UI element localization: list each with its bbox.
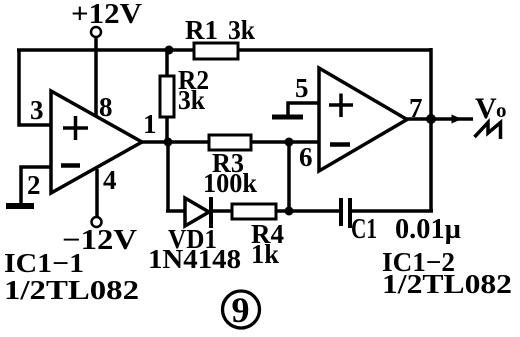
svg-text:3: 3 [30,95,44,125]
junction pin 7 node [426,114,436,124]
junction top rail / R2 [165,46,174,55]
svg-text:o: o [496,98,507,122]
wire diode cathode to R4 [211,209,233,213]
wire R4 to node [275,209,291,213]
resistor R2 [160,76,174,117]
svg-text:1k: 1k [251,239,279,269]
svg-text:1/2TL082: 1/2TL082 [382,269,512,299]
wire R2 bottom stub [165,115,169,142]
svg-text:0.01µ: 0.01µ [395,214,461,245]
diode VD1 [185,197,211,228]
svg-text:R1: R1 [185,15,218,45]
svg-text:9: 9 [232,290,250,330]
ground (pin 2) [6,203,34,209]
svg-text:3k: 3k [178,85,205,115]
wire pin 4 to -12V supply [95,169,99,217]
waveform symbol [475,123,501,140]
junction bottom node [285,207,294,216]
op-amp IC1-2 [319,68,407,171]
wire feedback left: top rail to pin 3 [19,50,51,125]
svg-text:+12V: +12V [71,0,142,30]
terminal +12V [91,27,101,37]
wire top rail [17,48,431,52]
wire diode branch vertical [166,142,170,211]
op-amp IC1-1 plus input mark [63,116,88,140]
wire pin 6 node vertical [287,142,291,211]
ground (pin 5) [272,115,303,120]
resistor R1 [194,43,238,59]
wire pin 1 to pin 6 [142,140,319,144]
terminal -12V [92,217,102,227]
wire +12V supply to pin 8 [94,37,98,117]
junction pin 6 node [285,138,294,147]
svg-text:3k: 3k [228,15,255,45]
svg-text:2: 2 [27,170,41,200]
svg-text:1: 1 [143,109,157,139]
wire pin 7 output [407,117,473,121]
wire pin 2 to ground [21,167,52,204]
op-amp IC1-2 minus input mark [330,142,350,147]
op-amp IC1-1 minus input mark [61,163,80,168]
junction pin 1 node [164,138,173,147]
wire node to C1 left plate [289,209,341,213]
figure number circle 9 [223,290,260,330]
resistor R4 [232,204,276,219]
svg-text:1/2TL082: 1/2TL082 [4,275,139,305]
svg-text:8: 8 [99,92,113,122]
svg-text:V: V [475,92,497,125]
capacitor C1 [341,198,350,228]
wire R2 top stub [165,50,169,78]
wire node to diode anode [166,209,186,213]
label Vo [475,92,507,125]
arrow on output wire [452,115,463,124]
svg-text:4: 4 [103,165,117,195]
svg-text:6: 6 [299,142,313,172]
op-amp IC1-1 [51,91,142,193]
svg-text:IC1−1: IC1−1 [4,248,84,278]
svg-text:100k: 100k [203,168,257,198]
wire right vertical [429,48,433,211]
svg-text:1N4148: 1N4148 [148,244,241,274]
svg-text:C1: C1 [351,214,377,245]
svg-text:7: 7 [409,93,423,123]
wire pin 5 to ground [288,103,319,115]
op-amp IC1-2 plus input mark [329,94,353,118]
wire bottom: C1 right plate to right vertical [350,209,433,213]
resistor R3 [209,135,251,150]
svg-text:5: 5 [295,73,309,103]
